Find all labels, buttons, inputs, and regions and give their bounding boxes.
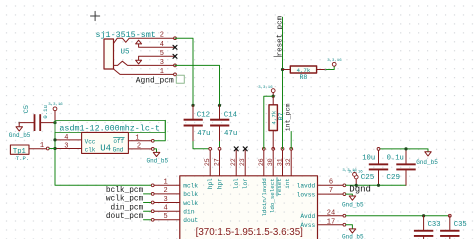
resistor R8: [281, 66, 334, 81]
svg-text:1: 1: [40, 142, 44, 150]
svg-text:ldo_select: ldo_select: [269, 178, 276, 213]
svg-text:[370:1.5-1.95:1.5-3.6:35]: [370:1.5-1.95:1.5-3.6:35]: [196, 227, 304, 238]
svg-text:4,7k: 4,7k: [271, 110, 278, 124]
ground Gnd_b5 at C5: [9, 122, 31, 139]
svg-text:lol: lol: [233, 178, 240, 189]
wire pin6 lavdd rail: [346, 184, 406, 186]
junction power / lavdd: [355, 184, 358, 187]
junction C29 top: [404, 147, 407, 150]
svg-text:dout_pcm: dout_pcm: [106, 213, 144, 221]
svg-text:wclk: wclk: [183, 200, 198, 207]
svg-text:30: 30: [267, 158, 274, 166]
wire jack pin3 to C14: [175, 65, 220, 105]
wire reset vertical: [282, 17, 284, 149]
svg-text:4: 4: [163, 205, 167, 213]
wire U4 pin2 to ground: [154, 149, 156, 152]
capacitor C35: [440, 216, 467, 239]
svg-text:mclk: mclk: [183, 183, 198, 190]
svg-text:U4: U4: [100, 144, 111, 154]
svg-text:Gnd_b5: Gnd_b5: [147, 158, 169, 165]
svg-text:6: 6: [329, 178, 333, 186]
svg-text:hpr: hpr: [217, 178, 224, 189]
wire bus down left vertical: [55, 132, 152, 185]
svg-text:C25: C25: [361, 174, 375, 182]
svg-text:0.1u: 0.1u: [387, 155, 404, 163]
svg-text:47u: 47u: [197, 130, 210, 138]
wire C14 to pin 27: [219, 142, 221, 149]
svg-text:C35: C35: [454, 221, 467, 229]
svg-text:bclk_pcm: bclk_pcm: [106, 187, 144, 195]
svg-text:31: 31: [277, 158, 284, 166]
svg-text:2: 2: [137, 143, 141, 151]
svg-text:int_pcm: int_pcm: [285, 104, 292, 132]
no-connect pin 5: [173, 54, 177, 58]
U4 pin 1: [128, 140, 151, 142]
svg-text:Vcc: Vcc: [85, 139, 96, 146]
ground Gnd_b5 top right: [416, 152, 438, 166]
U5 switch pin 5: [139, 56, 175, 60]
capacitor C25: [361, 150, 388, 185]
wire pin24 Avdd rail: [346, 215, 450, 217]
svg-text:17: 17: [327, 219, 335, 227]
capacitor C14: [210, 105, 238, 141]
svg-text:23: 23: [239, 158, 246, 166]
svg-text:C5: C5: [23, 105, 31, 113]
wire caps top to ground: [379, 149, 429, 152]
junction C25 bottom: [377, 184, 380, 187]
svg-text:bclk: bclk: [183, 191, 198, 198]
junction C5 / power: [53, 121, 56, 124]
svg-text:1: 1: [160, 68, 164, 76]
svg-text:C14: C14: [224, 111, 238, 119]
svg-text:7: 7: [329, 187, 333, 195]
junction at C14 top: [218, 104, 221, 107]
test point Tp1: [10, 142, 55, 162]
IC top pin end circles: [209, 147, 293, 150]
svg-text:4: 4: [64, 134, 68, 142]
power symbol 3,3,16 at C25: [342, 169, 357, 176]
U5 pin end circles: [174, 37, 177, 76]
ground Gnd_b5 at U4: [147, 152, 169, 164]
capacitor C33: [414, 216, 441, 239]
svg-text:1: 1: [135, 135, 139, 143]
oscillator U4 body: [82, 132, 129, 153]
wire pin7 to ground: [346, 194, 353, 196]
U5 switch pin 4: [139, 44, 175, 47]
svg-text:U5: U5: [121, 49, 131, 57]
svg-text:Avdd: Avdd: [300, 213, 315, 220]
power symbol 3,3,16 at pin6: [348, 171, 363, 186]
svg-text:T.P.: T.P.: [16, 155, 29, 162]
svg-text:dout: dout: [183, 217, 198, 224]
svg-text:R8: R8: [299, 74, 307, 81]
svg-text:lor: lor: [242, 178, 249, 189]
svg-text:22: 22: [230, 158, 237, 166]
wire pin17 to ground: [346, 225, 353, 229]
IC top pins: [210, 149, 291, 176]
connector U5 body: [104, 39, 114, 69]
svg-text:2: 2: [163, 187, 167, 195]
svg-text:off: off: [113, 138, 124, 145]
junction above R7: [272, 95, 275, 98]
svg-text:Dgnd: Dgnd: [349, 185, 371, 195]
capacitor C12: [184, 105, 211, 141]
svg-text:C33: C33: [428, 221, 441, 229]
svg-text:C29: C29: [386, 174, 400, 182]
IC body: [180, 176, 318, 240]
svg-text:lovss: lovss: [297, 191, 316, 198]
ground Gnd_b5 at pin17: [342, 229, 364, 240]
sheet origin crosshair: [91, 11, 100, 20]
IC right pin names: [297, 183, 316, 229]
svg-text:Gnd_b5: Gnd_b5: [342, 233, 364, 239]
svg-text:lavdd: lavdd: [297, 183, 316, 190]
C35 top circle: [448, 214, 451, 217]
capacitor C5: [19, 105, 55, 131]
svg-text:47u: 47u: [224, 130, 237, 138]
IC left pins 1-5: [154, 185, 180, 220]
IC left pin numbers: [163, 179, 167, 222]
sheet box asdm1-12.000mhz-lc-t: [55, 120, 165, 132]
svg-text:wclk_pcm: wclk_pcm: [106, 196, 144, 204]
U4 pin 4: [55, 139, 82, 141]
svg-text:4,7k: 4,7k: [296, 67, 310, 74]
capacitor C29: [386, 149, 415, 185]
U4 pin 2: [128, 148, 151, 150]
U5 ring contact pin 3: [114, 61, 176, 65]
svg-text:3: 3: [160, 59, 164, 67]
wire C12 to pin 25: [193, 142, 209, 149]
svg-text:10u: 10u: [362, 155, 375, 163]
svg-text:0.1u: 0.1u: [42, 105, 49, 118]
svg-text:24: 24: [327, 210, 335, 218]
svg-text:1: 1: [163, 179, 167, 187]
svg-text:ldoin/lavdd: ldoin/lavdd: [261, 178, 268, 216]
no-connect pin 22: [234, 147, 238, 151]
U4 pin 3: [55, 148, 82, 150]
svg-text:25: 25: [204, 158, 211, 166]
wire power to pin 26: [264, 96, 273, 149]
svg-text:3: 3: [64, 142, 68, 150]
U5 tip contact pin 2: [114, 38, 176, 43]
junction C33 top: [422, 214, 425, 217]
svg-text:C12: C12: [197, 111, 210, 119]
wire jack pin2 to C12: [175, 38, 193, 105]
svg-text:Gnd_b5: Gnd_b5: [416, 159, 438, 166]
svg-text:4: 4: [160, 41, 164, 49]
svg-text:int: int: [284, 178, 291, 188]
svg-text:din_pcm: din_pcm: [111, 204, 144, 212]
U5 sleeve pin 1: [114, 69, 176, 74]
power symbol 3,3,16 above R7: [258, 86, 275, 96]
no-connect pin 4: [173, 45, 177, 49]
svg-text:Gnd: Gnd: [113, 146, 124, 153]
svg-text:2: 2: [160, 32, 164, 40]
wire sheet box to U4 pin1: [154, 120, 165, 140]
U5 pin numbers: [160, 32, 164, 76]
svg-text:clk: clk: [85, 146, 96, 153]
junction at C12 top: [191, 104, 194, 107]
power symbol 3,3,16 above C5: [48, 103, 63, 122]
svg-text:Gnd_b5: Gnd_b5: [9, 132, 31, 139]
svg-text:reset_pcm: reset_pcm: [277, 15, 285, 56]
svg-text:Gnd_b5: Gnd_b5: [342, 201, 364, 208]
IC top pin names vertical: [207, 178, 291, 217]
svg-text:3,3,16: 3,3,16: [258, 86, 273, 90]
IC top pin numbers: [204, 158, 292, 166]
IC right pins: [318, 185, 344, 224]
reset overline: [276, 178, 278, 196]
svg-text:5: 5: [160, 50, 164, 58]
IC left pin names: [183, 183, 198, 225]
svg-text:3: 3: [163, 196, 167, 204]
IC right pin numbers: [327, 178, 335, 226]
power symbol 3,3,16 right of R8: [327, 59, 342, 66]
resistor R7: [269, 96, 285, 149]
svg-text:din: din: [183, 209, 194, 216]
svg-text:hpl: hpl: [207, 178, 214, 189]
svg-text:27: 27: [214, 158, 221, 166]
ground Gnd_b5 at pin7: [342, 196, 364, 208]
svg-text:5: 5: [163, 213, 167, 221]
svg-text:Agnd_pcm: Agnd_pcm: [136, 76, 174, 85]
svg-text:32: 32: [285, 158, 292, 166]
svg-text:26: 26: [258, 158, 265, 166]
no-connect pin 23: [243, 147, 247, 151]
